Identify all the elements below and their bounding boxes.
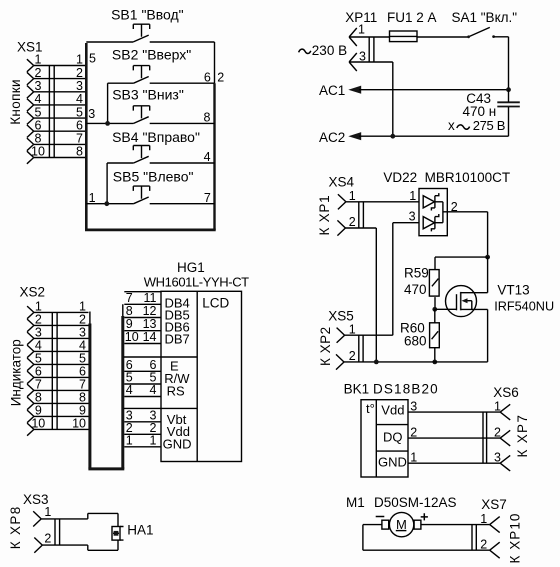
connector XP11 contact 3	[349, 49, 366, 71]
wire XS1-5	[34, 105, 86, 119]
svg-text:8: 8	[79, 391, 86, 405]
net label К XP7	[515, 414, 530, 458]
HG1 pin 4 RS	[124, 383, 185, 398]
cable XS1 bundle marks	[49, 65, 54, 158]
svg-text:14: 14	[143, 330, 157, 344]
svg-text:6: 6	[35, 365, 42, 379]
svg-text:3: 3	[494, 450, 501, 464]
diode VD22 bottom (Schottky)	[423, 214, 443, 231]
svg-text:11: 11	[144, 291, 157, 305]
wire XS3-2 to HA1	[42, 540, 118, 550]
switch SA1	[452, 10, 518, 90]
VD22 pin1 label	[409, 189, 416, 203]
svg-text:10: 10	[125, 330, 139, 344]
BK1 pin 2 wire	[408, 425, 500, 439]
svg-text:7: 7	[126, 291, 133, 305]
svg-text:XS2: XS2	[20, 285, 46, 300]
display HG1 box	[161, 291, 242, 461]
wire motor plus	[421, 524, 490, 526]
cable XS7 bundle marks	[472, 525, 476, 551]
wire R60 to rail	[434, 348, 436, 362]
svg-text:1: 1	[349, 189, 356, 203]
wire drain node to R59	[435, 257, 488, 269]
connector XS2 contact 7	[27, 378, 42, 397]
svg-text:9: 9	[35, 404, 42, 418]
svg-text:6: 6	[204, 70, 211, 84]
svg-text:1: 1	[349, 322, 356, 336]
net label К XP2	[318, 326, 333, 366]
junction R60 rail	[432, 360, 437, 365]
connector XS1 contact 3	[27, 79, 42, 98]
connector XS4 contact 2	[337, 215, 355, 235]
box pin 2	[217, 70, 224, 84]
svg-text:BK1: BK1	[344, 381, 370, 396]
motor M1	[382, 512, 421, 536]
svg-text:SB4 "Вправо": SB4 "Вправо"	[112, 129, 200, 145]
HG1 pin 3 Vbt	[124, 408, 186, 427]
svg-text:IRF540NU: IRF540NU	[494, 300, 554, 314]
wire gate node to R60	[434, 309, 436, 323]
sensor BK1 labels	[344, 381, 439, 396]
connector XS5 label	[328, 308, 354, 323]
button unit box	[85, 42, 216, 230]
svg-text:3: 3	[35, 79, 42, 93]
wire drain vertical	[487, 257, 489, 293]
cable XS2 bundle marks	[52, 312, 57, 429]
net label К XP8	[8, 505, 23, 549]
pushbutton SB3	[86, 86, 214, 123]
box pin 1	[89, 191, 96, 205]
wire VD22 internal join	[442, 202, 444, 223]
connector XS6 contact 3	[494, 450, 510, 471]
wire XS1-4	[34, 92, 86, 106]
svg-text:9: 9	[79, 404, 86, 418]
wire XS2-2	[34, 313, 89, 327]
svg-text:GND: GND	[163, 437, 192, 452]
cable harness to HG1	[88, 304, 124, 469]
svg-text:Индикатор: Индикатор	[8, 339, 23, 406]
svg-text:XS5: XS5	[328, 308, 354, 323]
connector XS2 contact 9	[27, 404, 42, 423]
svg-text:3: 3	[88, 107, 95, 121]
svg-text:8: 8	[126, 304, 133, 318]
sensor BK1 box	[361, 400, 408, 477]
wire XS4-2 down to rail	[345, 228, 376, 362]
wire XS2-4	[34, 339, 89, 353]
HG1 pin 5 R/W	[124, 371, 190, 387]
svg-text:4: 4	[76, 92, 83, 106]
svg-text:4: 4	[204, 150, 211, 164]
wire XP11-1 to fuse	[349, 36, 389, 38]
transistor VT13	[446, 283, 555, 317]
HG1 pin 13 DB6	[124, 317, 189, 334]
svg-text:XS4: XS4	[329, 175, 355, 190]
display HG1 labels	[144, 260, 249, 290]
svg-text:К XP10: К XP10	[508, 513, 523, 564]
box pin 3	[88, 107, 95, 121]
capacitor C43	[448, 90, 520, 137]
box pin 4	[204, 150, 211, 164]
connector XS6 contact 1	[494, 399, 510, 420]
svg-text:К XP7: К XP7	[515, 414, 530, 458]
motor M1 polarity marks	[376, 513, 428, 520]
box pin 7	[204, 191, 211, 205]
svg-text:230 В: 230 В	[312, 43, 347, 58]
diode assembly VD22	[383, 170, 510, 236]
svg-text:1: 1	[358, 23, 365, 37]
svg-text:275 В: 275 В	[473, 118, 505, 133]
wire XS1-3	[34, 79, 86, 93]
diode VD22 top (Schottky)	[423, 193, 443, 210]
VD22 pin2 label	[451, 200, 458, 214]
connector XS5 contact 1	[337, 322, 356, 342]
wire gate node to gate	[435, 308, 457, 310]
svg-text:680: 680	[404, 334, 427, 349]
svg-text:5: 5	[35, 352, 42, 366]
connector XS3 contact 1	[33, 505, 51, 526]
svg-text:5: 5	[89, 52, 96, 66]
svg-text:1: 1	[79, 300, 86, 314]
wire SB2-SB3	[107, 83, 109, 123]
connector XS1 contact 1	[27, 53, 42, 72]
svg-text:MBR10100CT: MBR10100CT	[425, 170, 511, 185]
svg-text:LCD: LCD	[202, 295, 229, 310]
svg-text:1: 1	[89, 191, 96, 205]
svg-text:2: 2	[79, 313, 86, 327]
svg-text:6: 6	[76, 118, 83, 132]
connector XS1 contact 4	[27, 92, 42, 111]
connector XS7 label	[481, 497, 507, 512]
svg-text:7: 7	[79, 378, 86, 392]
wire XS2-1	[34, 300, 89, 314]
wire XS1-10	[34, 145, 86, 159]
svg-text:3: 3	[35, 326, 42, 340]
wire XS5-1 to VD22 pin3	[345, 223, 419, 336]
svg-text:4: 4	[35, 92, 42, 106]
svg-text:WH1601L-YYH-CT: WH1601L-YYH-CT	[144, 274, 249, 289]
box pin 5	[89, 52, 96, 66]
svg-text:AC2: AC2	[319, 130, 345, 145]
svg-text:1: 1	[126, 433, 133, 447]
svg-text:HG1: HG1	[177, 260, 205, 275]
svg-text:GND: GND	[378, 454, 407, 469]
pushbutton SB2	[108, 47, 215, 84]
svg-text:SB3 "Вниз": SB3 "Вниз"	[112, 86, 184, 102]
cable XS6 bundle marks	[483, 412, 487, 463]
connector XS2 contact 5	[27, 352, 42, 371]
svg-text:8: 8	[203, 111, 210, 125]
wire XS2-10	[34, 417, 89, 431]
connector XS2 contact 6	[27, 365, 42, 384]
svg-text:M1: M1	[346, 495, 365, 510]
junction XS4-2 rail	[374, 360, 379, 365]
wire XS1-8	[34, 132, 86, 146]
svg-text:1: 1	[410, 450, 417, 464]
svg-text:8: 8	[35, 391, 42, 405]
wire VD22 pin2 out	[443, 212, 488, 257]
box pin 8	[203, 111, 210, 125]
connector XS6 label	[493, 385, 519, 400]
svg-text:8: 8	[35, 132, 42, 146]
connector XS2 contact 2	[27, 313, 42, 332]
svg-text:4: 4	[150, 383, 157, 397]
svg-text:7: 7	[35, 378, 42, 392]
motor M1 labels	[346, 495, 457, 510]
svg-text:1: 1	[494, 399, 501, 413]
BK1 pin 1 wire	[408, 450, 500, 464]
svg-text:К XP1: К XP1	[317, 195, 332, 236]
svg-text:1: 1	[35, 53, 42, 67]
net label AC1	[319, 83, 345, 98]
connector XS6 contact 2	[494, 425, 510, 446]
svg-text:3: 3	[79, 326, 86, 340]
svg-text:10: 10	[31, 417, 45, 431]
svg-text:SB1 "Ввод": SB1 "Ввод"	[111, 6, 184, 22]
svg-text:HA1: HA1	[127, 522, 153, 537]
wire XS2-9	[34, 404, 89, 418]
svg-text:6: 6	[35, 118, 42, 132]
svg-text:AC1: AC1	[319, 83, 345, 98]
wire XS4-1 to VD22	[346, 201, 419, 203]
svg-text:t°: t°	[366, 401, 375, 416]
svg-text:2: 2	[349, 349, 356, 363]
wire R59 to gate node	[434, 297, 436, 309]
junction AC1-C43	[506, 87, 511, 92]
svg-text:VT13: VT13	[497, 283, 529, 298]
svg-text:1: 1	[76, 53, 83, 67]
connector XP11 contact 1	[349, 23, 365, 46]
svg-text:2: 2	[494, 425, 501, 439]
svg-text:470: 470	[404, 282, 427, 297]
svg-text:DQ: DQ	[383, 429, 403, 444]
wire motor minus loop	[363, 525, 490, 551]
connector XS1 label	[17, 40, 43, 55]
wire XS2-5	[34, 352, 89, 366]
svg-text:1: 1	[35, 300, 42, 314]
wire fuse to switch	[417, 36, 468, 38]
svg-text:1: 1	[150, 433, 157, 447]
connector XS1 contact 6	[27, 118, 42, 137]
connector XS2 contact 8	[27, 391, 42, 410]
svg-text:5: 5	[79, 352, 86, 366]
svg-text:1: 1	[409, 189, 416, 203]
HG1 pin 11 DB4	[124, 291, 189, 311]
svg-text:x: x	[448, 118, 455, 133]
svg-text:К XP2: К XP2	[318, 326, 333, 366]
svg-text:2: 2	[349, 215, 356, 229]
svg-text:XS7: XS7	[481, 497, 507, 512]
svg-text:FU1 2 А: FU1 2 А	[387, 10, 437, 25]
svg-text:8: 8	[76, 145, 83, 159]
pushbutton SB4	[107, 129, 214, 163]
svg-text:3: 3	[359, 49, 366, 63]
svg-text:К XP8: К XP8	[8, 505, 23, 549]
connector XS1 contact 10	[27, 145, 45, 164]
wire XS2-3	[34, 326, 89, 340]
connector XS1 contact 8	[27, 132, 42, 151]
wire XS3-1 to HA1	[41, 513, 118, 526]
connector XS5 contact 2	[336, 349, 356, 369]
net label К XP1	[317, 195, 332, 236]
connector XS2 contact 10	[27, 417, 45, 436]
buzzer HA1	[112, 522, 154, 540]
wire source rail	[344, 361, 488, 363]
connector XS1 contact 5	[27, 105, 42, 124]
HG1 pin 12 DB5	[124, 304, 189, 322]
connector XS4 contact 1	[338, 189, 356, 209]
junction XP11-3 AC2	[390, 134, 395, 139]
svg-text:Кнопки: Кнопки	[8, 79, 23, 125]
svg-text:DB7: DB7	[165, 332, 190, 347]
wire AC2 with arrow	[348, 132, 508, 140]
cable XS4 bundle marks	[359, 202, 364, 229]
wire XS2-7	[34, 378, 89, 392]
svg-text:XS6: XS6	[493, 385, 519, 400]
svg-text:1: 1	[44, 505, 51, 519]
BK1 pin 3 wire	[408, 399, 500, 413]
wire XS1-1	[34, 53, 86, 67]
wire XS1-6	[34, 118, 86, 132]
svg-text:SB2 "Вверх": SB2 "Вверх"	[112, 47, 191, 63]
connector XS2 label	[20, 285, 46, 300]
HG1 pin 1 GND	[124, 433, 191, 451]
wire AC1 with arrow	[348, 86, 508, 94]
svg-text:Vdd: Vdd	[381, 403, 404, 418]
pushbutton SB5	[86, 168, 214, 204]
svg-text:D50SM-12AS: D50SM-12AS	[374, 495, 457, 510]
connector XP11 label	[345, 10, 377, 25]
svg-text:7: 7	[76, 132, 83, 146]
svg-text:5: 5	[35, 105, 42, 119]
svg-text:4: 4	[126, 383, 133, 397]
svg-text:6: 6	[79, 365, 86, 379]
net label AC2	[319, 130, 345, 145]
svg-text:7: 7	[204, 191, 211, 205]
connector XS3 contact 2	[34, 532, 51, 553]
box pin 6	[204, 70, 211, 84]
svg-text:RS: RS	[167, 383, 185, 398]
svg-text:2: 2	[76, 66, 83, 80]
wire source to rail	[487, 309, 489, 362]
cable XS5 bundle marks	[359, 335, 363, 362]
HG1 pin 2 Vdd	[124, 421, 190, 439]
cable XS3 bundle marks	[55, 519, 60, 545]
connector XS2 contact 1	[27, 300, 42, 319]
svg-text:DS18B20: DS18B20	[373, 381, 439, 396]
connector XS3 label	[23, 492, 49, 507]
resistor R60	[400, 321, 439, 349]
svg-text:2: 2	[35, 313, 42, 327]
connector XS2 contact 4	[27, 339, 42, 358]
HG1 pin 14 DB7	[124, 330, 189, 347]
resistor R59	[404, 265, 439, 297]
net label Кнопки	[8, 79, 23, 125]
svg-text:М: М	[396, 517, 407, 532]
svg-text:R59: R59	[404, 265, 429, 280]
svg-text:5: 5	[76, 105, 83, 119]
junction SB5	[104, 201, 109, 206]
svg-text:3: 3	[409, 209, 416, 223]
junction SB3	[105, 121, 110, 126]
svg-text:1: 1	[480, 512, 487, 526]
wire XS1-2	[34, 66, 86, 80]
cable XP11 bundle marks	[369, 37, 374, 62]
svg-text:2: 2	[480, 537, 487, 551]
wire XS2-8	[34, 391, 89, 405]
HG1 pin 6 E	[124, 358, 179, 374]
svg-text:SA1 "Вкл.": SA1 "Вкл."	[452, 10, 518, 25]
wire XP11-3	[349, 62, 393, 136]
svg-text:3: 3	[410, 399, 417, 413]
svg-text:4: 4	[79, 339, 86, 353]
svg-text:2: 2	[35, 66, 42, 80]
connector XS7 contact 2	[480, 537, 499, 558]
svg-text:4: 4	[35, 339, 42, 353]
svg-text:10: 10	[72, 417, 86, 431]
connector XS7 contact 1	[480, 512, 499, 533]
junction drain node	[485, 255, 490, 260]
svg-text:SB5 "Влево": SB5 "Влево"	[113, 168, 194, 184]
connector XS1 contact 2	[27, 66, 42, 85]
connector XS4 label	[329, 175, 355, 190]
svg-text:12: 12	[143, 304, 157, 318]
svg-text:2: 2	[410, 425, 417, 439]
net label ~230 В	[299, 43, 347, 58]
fuse FU1	[387, 10, 437, 41]
svg-text:470 н: 470 н	[463, 104, 497, 119]
svg-text:2: 2	[44, 532, 51, 546]
pushbutton SB1	[111, 6, 184, 42]
svg-text:VD22: VD22	[383, 170, 417, 185]
HG1 cell divider lines	[124, 292, 198, 409]
wire XS2-6	[34, 365, 89, 379]
VD22 pin3 label	[409, 209, 416, 223]
connector XS2 contact 3	[27, 326, 42, 345]
svg-text:10: 10	[31, 145, 45, 159]
net label К XP10	[508, 513, 523, 564]
wire SB4-SB5	[106, 163, 108, 204]
svg-text:2: 2	[217, 70, 224, 84]
net label Индикатор	[8, 339, 23, 406]
junction gate node	[432, 307, 437, 312]
svg-text:3: 3	[76, 79, 83, 93]
